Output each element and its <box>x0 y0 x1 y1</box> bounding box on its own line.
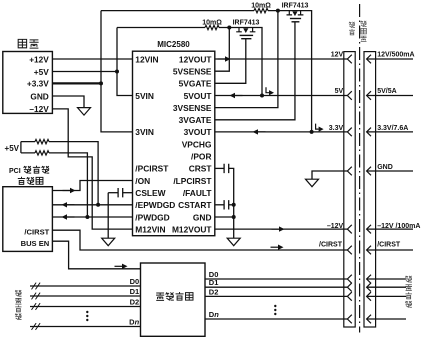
svg-text:Dn: Dn <box>209 310 219 319</box>
svg-text:IRF7413: IRF7413 <box>233 19 260 26</box>
svg-text:+5V: +5V <box>5 144 20 153</box>
wire CSTART stub <box>215 204 224 206</box>
junction CSTART node <box>232 203 236 207</box>
resistor R1 10m&#937; (3.3V sense) <box>254 8 268 12</box>
svg-text:3VIN: 3VIN <box>135 127 154 137</box>
svg-text:–12V /100mA: –12V /100mA <box>377 223 420 230</box>
capacitor C2 CRST <box>224 164 229 173</box>
wire data D2 left <box>30 306 141 308</box>
connector pin (platform) y=250.0 <box>347 246 351 255</box>
corner arrow 3.3V <box>316 124 319 130</box>
connector pin (platform) y=95.5 <box>347 91 351 100</box>
bus slash D1 <box>32 293 41 300</box>
wire CSLEW to ground <box>107 193 109 239</box>
wire CSTART to vertical <box>229 204 234 206</box>
svg-text:+12V: +12V <box>29 54 49 64</box>
bus switch box 总线开关 <box>141 263 206 336</box>
svg-text:3VGATE: 3VGATE <box>179 115 212 125</box>
svg-text:BUS EN: BUS EN <box>21 239 50 248</box>
connector pin (adapter) y=279.0 <box>367 275 371 284</box>
svg-text:/ON: /ON <box>135 176 150 186</box>
wire 3VSENSE <box>215 11 278 108</box>
wire /ON from controller <box>52 181 132 191</box>
ground symbol (CSLEW) <box>102 238 115 246</box>
arrow on /PWDGD <box>67 216 75 218</box>
bus slash D2 <box>32 303 41 310</box>
svg-text:M12VOUT: M12VOUT <box>172 224 212 234</box>
wire +3.3V row (bold) <box>52 82 101 84</box>
connector pin (adapter) y=229.1 <box>367 225 371 234</box>
wire 5VGATE <box>215 39 246 84</box>
wire data Dn right <box>205 318 347 320</box>
wire +5V pullup bracket <box>20 142 22 153</box>
svg-text:/CIRST: /CIRST <box>24 228 49 237</box>
svg-text:5V/5A: 5V/5A <box>377 88 396 95</box>
wire +12V to 12VIN <box>52 58 132 60</box>
connector pin (adapter) y=287.2 <box>367 283 371 292</box>
connector pin (platform) y=229.1 <box>347 225 351 234</box>
svg-text:D0: D0 <box>130 277 140 286</box>
svg-text:5V: 5V <box>335 88 344 95</box>
transistor Q2 IRF7413 (5V switch) <box>236 28 242 32</box>
arrow on 12V row <box>218 58 226 60</box>
connector pin (platform) y=319.0 <box>347 315 351 324</box>
wire 12V output row <box>215 58 348 60</box>
wire adapter stub y=131.9 <box>367 131 413 133</box>
wire data D2 right <box>205 295 347 297</box>
wire -12V to M12VIN <box>52 109 132 229</box>
svg-text:GND: GND <box>30 91 48 101</box>
capacitor C1 CSLEW <box>118 188 123 197</box>
connector centerline <box>359 4 361 333</box>
wire 5VSENSE <box>215 28 230 72</box>
capacitor C3 CSTART <box>224 200 229 209</box>
svg-text:VPCHG: VPCHG <box>182 139 212 149</box>
wire 3.3V output row <box>215 131 348 133</box>
svg-text:M12VIN: M12VIN <box>135 224 165 234</box>
wire rail2 vertical (5V feed) <box>117 28 133 96</box>
wire BUS EN to bus switch <box>52 241 140 269</box>
svg-text:/PWDGD: /PWDGD <box>135 212 169 222</box>
corner arrow 5V <box>266 87 269 93</box>
svg-text:D2: D2 <box>209 287 219 296</box>
wire GND to ground <box>52 96 84 108</box>
ellipsis right data bus <box>274 305 276 307</box>
svg-text:10mΩ: 10mΩ <box>251 3 271 10</box>
label 总线开关 <box>156 293 164 300</box>
wire adapter stub y=296.4 <box>367 295 406 297</box>
svg-text:MIC2580: MIC2580 <box>157 40 190 49</box>
wire rail2 (5V path) <box>117 28 262 96</box>
wire 3VGATE <box>215 22 295 120</box>
wire 5V output row <box>215 95 348 97</box>
wire adapter stub y=171.0 <box>367 170 413 172</box>
bus slash Dn <box>32 323 41 330</box>
svg-text:/EPWDGD: /EPWDGD <box>135 200 175 210</box>
arrow on BUS EN <box>115 265 123 267</box>
svg-text:3.3V/7.6A: 3.3V/7.6A <box>377 125 408 132</box>
connector box (platform) <box>344 52 355 327</box>
wire /PWDGD row <box>52 216 132 218</box>
svg-text:12VIN: 12VIN <box>135 54 158 64</box>
svg-text:12V: 12V <box>331 51 344 58</box>
connector pin (platform) y=59.0 <box>347 55 351 64</box>
svg-text:/CIRST: /CIRST <box>377 241 401 248</box>
resistor R4 pull-up <box>35 151 49 155</box>
svg-text:/LPCIRST: /LPCIRST <box>173 176 212 186</box>
svg-text:3VSENSE: 3VSENSE <box>173 103 212 113</box>
ground symbol (power) <box>78 108 91 116</box>
junction 3.3V node <box>310 130 314 134</box>
wire adapter stub y=319.0 <box>367 318 406 320</box>
svg-text:CSLEW: CSLEW <box>135 188 165 198</box>
label 控制器 <box>18 177 25 185</box>
wire adapter stub y=250.0 <box>367 249 413 251</box>
bus slash D0 <box>32 283 41 290</box>
wire GND connector <box>312 171 347 179</box>
svg-text:–12V: –12V <box>29 104 49 114</box>
resistor R3 pull-up <box>35 139 49 143</box>
wire data D1 right <box>205 286 347 288</box>
svg-text:CRST: CRST <box>189 164 213 174</box>
junction R4//PWDGD <box>85 215 89 219</box>
svg-text:5VGATE: 5VGATE <box>179 79 212 89</box>
PCI hot-swap controller box <box>3 187 53 252</box>
svg-text:CSTART: CSTART <box>178 200 212 210</box>
wire data Dn left <box>30 326 141 328</box>
label 电源 <box>18 39 26 47</box>
connector pin (adapter) y=59.0 <box>367 55 371 64</box>
connector pin (adapter) y=131.9 <box>367 128 371 137</box>
wire CSLEW left <box>108 192 118 194</box>
svg-text:+3.3V: +3.3V <box>27 79 49 89</box>
power supply box 电源 <box>3 52 53 114</box>
wire adapter stub y=279.0 <box>367 278 406 280</box>
wire data D0 right <box>205 278 347 280</box>
resistor R2 10m&#937; (5V sense) <box>205 25 219 29</box>
label 数据总线 (left) <box>15 290 21 296</box>
svg-text:GND: GND <box>377 164 393 171</box>
label 平台 <box>349 22 355 28</box>
svg-text:/CIRST: /CIRST <box>319 241 343 248</box>
connector pin (adapter) y=319.0 <box>367 315 371 324</box>
svg-text:PCI: PCI <box>9 168 21 175</box>
ground symbol (chip GND) <box>227 238 240 246</box>
svg-text:D2: D2 <box>130 298 140 307</box>
wire /EPWDGD row <box>52 204 132 206</box>
ground symbol (connector) <box>306 179 319 187</box>
op-amp U1 MIC2580 box <box>133 51 215 236</box>
svg-text:IRF7413: IRF7413 <box>282 3 309 10</box>
arrow on /ON wire <box>63 190 71 192</box>
wire pullup R3 row <box>21 142 98 205</box>
transistor Q1 IRF7413 (3.3V switch) <box>287 11 293 15</box>
connector pin (platform) y=296.4 <box>347 292 351 301</box>
wire pullup R4 row <box>21 153 88 217</box>
svg-text:+5V: +5V <box>34 67 49 77</box>
wire rail1 vertical (3.3V feed) <box>101 11 133 132</box>
wire CSLEW right <box>123 192 133 194</box>
wire rail1 (3.3V path) <box>101 11 312 132</box>
wire /CIRST to connector <box>52 230 347 250</box>
wire CRST to vertical <box>229 168 234 238</box>
svg-text:GND: GND <box>193 212 212 222</box>
svg-text:5VIN: 5VIN <box>135 91 154 101</box>
svg-text:D1: D1 <box>209 278 219 287</box>
arrow on /CIRST <box>271 246 279 248</box>
svg-text:D1: D1 <box>130 287 140 296</box>
wire adapter stub y=59.0 <box>367 58 413 60</box>
wire adapter stub y=229.1 <box>367 228 413 230</box>
connector pin (adapter) y=250.0 <box>367 246 371 255</box>
connector pin (platform) y=131.9 <box>347 128 351 137</box>
wire data D1 left <box>30 295 141 297</box>
junction rail1/3VSENSE <box>276 9 280 13</box>
svg-text:5VOUT: 5VOUT <box>184 91 213 101</box>
arrow on 3.3V row <box>258 131 266 133</box>
svg-text:12VOUT: 12VOUT <box>179 54 212 64</box>
junction +3.3V/rail1 <box>99 81 103 85</box>
svg-text:/FAULT: /FAULT <box>183 188 213 198</box>
arrow on -12V row <box>272 228 280 230</box>
connector pin (adapter) y=171.0 <box>367 167 371 176</box>
svg-text:–12V: –12V <box>327 223 344 230</box>
connector box (adapter) <box>364 52 376 327</box>
connector pin (platform) y=279.0 <box>347 275 351 284</box>
label 适配器 <box>361 21 367 27</box>
connector pin (platform) y=287.2 <box>347 283 351 292</box>
wire data D0 left <box>30 285 141 287</box>
svg-text:3VOUT: 3VOUT <box>184 127 213 137</box>
junction R3//EPWDGD <box>96 203 100 207</box>
svg-text:10mΩ: 10mΩ <box>202 19 222 26</box>
junction rail2/5VSENSE <box>227 26 231 30</box>
wire adapter stub y=95.5 <box>367 95 413 97</box>
junction +5V/rail2 <box>115 70 119 74</box>
wire adapter stub y=287.2 <box>367 286 406 288</box>
svg-text:12V/500mA: 12V/500mA <box>377 51 414 58</box>
svg-text:5VSENSE: 5VSENSE <box>173 67 212 77</box>
ellipsis left data bus <box>86 311 88 313</box>
svg-text:Dn: Dn <box>129 318 139 327</box>
svg-text:3.3V: 3.3V <box>329 125 344 132</box>
svg-text:/PCIRST: /PCIRST <box>135 164 169 174</box>
arrow on 5V row <box>235 95 243 97</box>
connector pin (platform) y=171.0 <box>347 167 351 176</box>
label 数据总线 (right) <box>405 276 412 282</box>
wire -12V output row <box>215 228 348 230</box>
svg-text:/POR: /POR <box>191 152 211 162</box>
connector pin (adapter) y=95.5 <box>367 91 371 100</box>
wire GND pin to vertical <box>215 216 234 218</box>
wire +5V row <box>52 71 117 73</box>
arrow on /EPWDGD <box>67 204 75 206</box>
connector pin (adapter) y=296.4 <box>367 292 371 301</box>
junction GND node <box>232 215 236 219</box>
wire CRST stub <box>215 167 224 169</box>
junction 5V node <box>260 94 264 98</box>
